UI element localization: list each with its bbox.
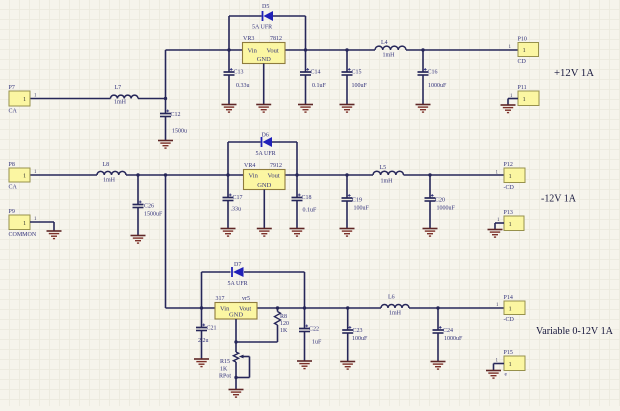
svg-text:L4: L4 [381,40,388,46]
svg-text:0.33u: 0.33u [236,83,250,89]
svg-text:100uF: 100uF [352,83,368,89]
svg-text:P11: P11 [518,85,527,91]
svg-text:P13: P13 [504,210,513,216]
svg-text:C18: C18 [302,195,312,201]
svg-text:Vout: Vout [267,47,279,54]
svg-text:1mH: 1mH [114,100,127,106]
svg-text:GND: GND [229,312,243,319]
svg-text:R8: R8 [280,314,287,320]
svg-text:7812: 7812 [270,36,282,42]
svg-text:C16: C16 [428,70,438,76]
svg-text:C17: C17 [233,195,243,201]
svg-text:GND: GND [257,56,271,63]
svg-text:7912: 7912 [270,163,282,169]
svg-text:COMMON: COMMON [9,232,37,238]
svg-text:VR4: VR4 [244,163,255,169]
svg-text:P12: P12 [504,162,513,168]
svg-text:1: 1 [523,47,526,54]
svg-text:D6: D6 [262,133,269,139]
svg-text:CA: CA [9,109,18,115]
svg-text:-12V 1A: -12V 1A [541,193,576,205]
svg-text:1K: 1K [280,328,288,334]
svg-text:P9: P9 [9,209,15,215]
svg-text:Vin: Vin [248,47,258,54]
svg-text:1: 1 [523,96,526,103]
svg-text:1000uF: 1000uF [437,206,456,212]
svg-text:.33u: .33u [231,207,242,213]
svg-text:L6: L6 [388,295,395,301]
svg-text:Vout: Vout [268,172,280,179]
svg-text:P8: P8 [9,162,15,168]
svg-text:CA: CA [9,185,18,191]
svg-text:2.2u: 2.2u [198,338,209,344]
svg-text:1: 1 [23,220,26,227]
svg-text:1000uF: 1000uF [428,83,447,89]
svg-text:1: 1 [509,305,512,312]
svg-text:5A UFR: 5A UFR [256,151,276,157]
svg-text:317: 317 [216,296,225,302]
svg-text:C13: C13 [234,70,244,76]
svg-text:100uF: 100uF [354,206,370,212]
svg-text:1mH: 1mH [103,178,116,184]
svg-text:D7: D7 [234,262,241,268]
svg-text:1K: 1K [220,367,228,373]
svg-text:L7: L7 [115,85,122,91]
svg-text:C14: C14 [311,70,321,76]
svg-text:-CD: -CD [504,185,515,191]
svg-text:1000uF: 1000uF [444,336,463,342]
svg-text:R15: R15 [220,359,230,365]
svg-text:C26: C26 [144,204,154,210]
svg-text:P10: P10 [518,37,527,43]
svg-text:C20: C20 [435,198,445,204]
svg-text:C12: C12 [171,112,181,118]
svg-text:C19: C19 [352,198,362,204]
svg-text:L8: L8 [103,162,110,168]
svg-text:P14: P14 [504,295,513,301]
svg-text:1mH: 1mH [389,311,402,317]
svg-text:C23: C23 [353,328,363,334]
svg-text:1mH: 1mH [383,53,396,59]
svg-text:0.1uF: 0.1uF [312,83,327,89]
svg-text:C21: C21 [207,326,217,332]
svg-text:GND: GND [257,182,271,189]
svg-text:1: 1 [23,96,26,103]
svg-text:100uF: 100uF [352,336,368,342]
svg-text:C15: C15 [352,70,362,76]
svg-text:vr5: vr5 [242,296,250,302]
svg-text:RPot: RPot [219,374,231,380]
svg-text:CD: CD [518,59,527,65]
svg-text:120: 120 [280,321,289,327]
svg-text:5A UFR: 5A UFR [252,25,272,31]
svg-text:C22: C22 [309,327,319,333]
svg-text:0.1uF: 0.1uF [303,208,318,214]
svg-text:L5: L5 [380,165,387,171]
svg-text:P7: P7 [9,85,15,91]
svg-text:1uF: 1uF [312,340,322,346]
svg-text:1mH: 1mH [381,179,394,185]
svg-text:Variable 0-12V 1A: Variable 0-12V 1A [536,325,613,337]
svg-text:-CD: -CD [504,317,515,323]
svg-text:1: 1 [509,361,512,368]
svg-text:1: 1 [509,221,512,228]
svg-text:P15: P15 [504,350,513,356]
svg-text:5A UFR: 5A UFR [228,281,248,287]
svg-text:Vin: Vin [249,172,259,179]
svg-text:1: 1 [23,173,26,180]
svg-text:C24: C24 [443,328,453,334]
svg-text:1500u: 1500u [172,129,187,135]
svg-text:+12V 1A: +12V 1A [554,67,594,79]
svg-text:D5: D5 [262,4,269,10]
svg-text:1: 1 [509,173,512,180]
svg-text:1500uF: 1500uF [144,212,163,218]
svg-text:VR3: VR3 [243,36,254,42]
